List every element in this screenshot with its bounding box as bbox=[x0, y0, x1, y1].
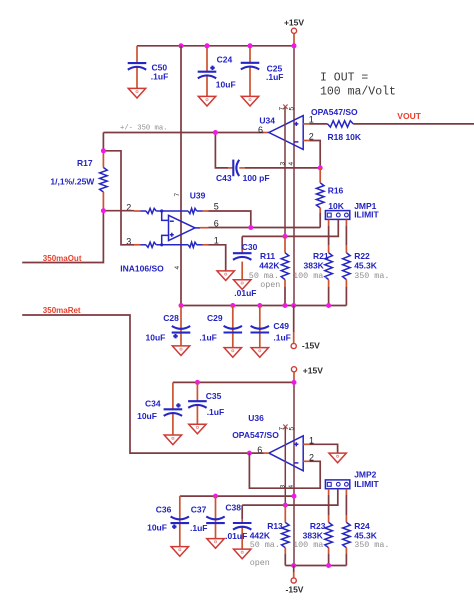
svg-text:5: 5 bbox=[289, 107, 296, 111]
svg-text:100 pF: 100 pF bbox=[243, 173, 270, 183]
svg-text:6: 6 bbox=[258, 125, 263, 135]
svg-text:R22: R22 bbox=[354, 251, 370, 261]
junction lower ILIM node bbox=[283, 503, 288, 508]
op-amp U36 OPA547/SO bbox=[232, 413, 303, 471]
svg-text:442K: 442K bbox=[259, 261, 280, 271]
svg-text:VOUT: VOUT bbox=[397, 111, 421, 121]
svg-text:10uF: 10uF bbox=[216, 80, 236, 90]
svg-text:C38: C38 bbox=[225, 503, 241, 513]
capacitor C50 bbox=[128, 46, 169, 98]
svg-text:1: 1 bbox=[214, 235, 219, 245]
svg-text:.1uF: .1uF bbox=[190, 523, 207, 533]
U36 pin 1 wire to ground bbox=[303, 435, 346, 462]
svg-text:442K: 442K bbox=[250, 530, 271, 540]
junctions lower +15V rail bbox=[195, 380, 297, 385]
svg-text:C29: C29 bbox=[207, 313, 223, 323]
resistor R13 bbox=[250, 505, 289, 568]
capacitor C24 bbox=[198, 46, 236, 106]
wire +15V vertical feed U36 bbox=[293, 382, 295, 565]
power +15V top bbox=[284, 18, 304, 46]
instrumentation amp U39 INA106/SO bbox=[120, 191, 205, 274]
svg-text:R24: R24 bbox=[354, 521, 370, 531]
svg-text:.1uF: .1uF bbox=[273, 332, 290, 342]
svg-text:OPA547/SO: OPA547/SO bbox=[311, 107, 358, 117]
wire 350maOut net bbox=[22, 211, 103, 263]
resistor R18 bbox=[328, 121, 362, 143]
U36 ILIM vertical wire (pin 3) bbox=[284, 427, 286, 505]
svg-text:R18 10K: R18 10K bbox=[328, 132, 362, 142]
svg-text:2: 2 bbox=[309, 453, 314, 463]
svg-text:C30: C30 bbox=[242, 242, 258, 252]
jumper JMP1 bbox=[325, 201, 379, 219]
svg-text:383K: 383K bbox=[304, 261, 325, 271]
svg-text:C37: C37 bbox=[191, 505, 207, 515]
U39 pin 6 output wire bbox=[195, 218, 320, 228]
svg-text:C34: C34 bbox=[145, 399, 161, 409]
wire C36/C37 bypass rail bbox=[180, 495, 294, 497]
wire U39 V+ vertical (pin 7 to pin 4 rail drop) bbox=[180, 46, 182, 306]
svg-text:100 ma.: 100 ma. bbox=[293, 540, 328, 550]
svg-text:I OUT =: I OUT = bbox=[320, 72, 368, 85]
svg-text:U36: U36 bbox=[248, 413, 264, 423]
wire VOUT net bbox=[353, 111, 474, 124]
U39 pin 3 input network bbox=[126, 235, 202, 247]
svg-text:.1uF: .1uF bbox=[266, 72, 283, 82]
junction ILIM node bbox=[283, 234, 288, 239]
svg-text:+15V: +15V bbox=[284, 18, 304, 28]
junctions bypass rail bbox=[213, 494, 297, 499]
junction R17 bottom bbox=[101, 208, 106, 213]
svg-text:-15V: -15V bbox=[302, 341, 320, 351]
wire R17 top branch to U39 pin 3 bbox=[103, 151, 134, 245]
svg-text:50 ma.: 50 ma. bbox=[250, 540, 280, 550]
svg-text:OPA547/SO: OPA547/SO bbox=[232, 430, 279, 440]
svg-text:5: 5 bbox=[214, 202, 219, 212]
wire 350maRet net bbox=[22, 306, 269, 453]
svg-text:R11: R11 bbox=[260, 251, 275, 261]
U34 rotated pin numbers 7 5 (top) bbox=[279, 107, 296, 111]
resistor R24 bbox=[343, 489, 390, 566]
svg-text:45.3K: 45.3K bbox=[354, 261, 378, 271]
U39 pin 1 wire to ground bbox=[203, 235, 235, 280]
U34 ILIM vertical wire (pin 3) bbox=[284, 107, 286, 237]
svg-text:1/,1%/.25W: 1/,1%/.25W bbox=[50, 176, 95, 186]
svg-text:10uF: 10uF bbox=[147, 523, 167, 533]
resistor R17 bbox=[50, 151, 107, 211]
svg-text:383K: 383K bbox=[303, 530, 324, 540]
svg-text:ILIMIT: ILIMIT bbox=[354, 209, 379, 219]
svg-text:350maOut: 350maOut bbox=[43, 254, 82, 263]
resistor R23 bbox=[293, 489, 332, 566]
wire +15V rail (lower) bbox=[173, 381, 294, 383]
svg-text:.01uF: .01uF bbox=[234, 288, 256, 298]
U39 pin 2 input network bbox=[126, 202, 202, 220]
capacitor C35 bbox=[188, 382, 224, 433]
capacitor C30 bbox=[233, 236, 258, 298]
svg-text:.1uF: .1uF bbox=[199, 332, 216, 342]
U36 rotated pin numbers 3 4 bbox=[280, 485, 296, 489]
svg-text:45.3K: 45.3K bbox=[354, 530, 378, 540]
wire R17 bottom to U39 pin 2 bbox=[103, 210, 134, 212]
svg-text:R13: R13 bbox=[267, 521, 283, 531]
svg-text:open: open bbox=[260, 280, 280, 290]
svg-text:5: 5 bbox=[289, 427, 296, 431]
junctions on -15V rail bbox=[179, 303, 332, 308]
capacitor C25 bbox=[241, 46, 284, 106]
power -15V (bottom) bbox=[286, 566, 304, 595]
svg-text:R21: R21 bbox=[313, 251, 329, 261]
svg-text:1: 1 bbox=[309, 114, 314, 124]
svg-text:C36: C36 bbox=[156, 505, 172, 515]
U36 feedback loop pin6 to pin2 bbox=[249, 453, 320, 489]
svg-text:4: 4 bbox=[174, 266, 181, 270]
svg-text:-15V: -15V bbox=[286, 585, 304, 595]
svg-text:ILIMIT: ILIMIT bbox=[354, 479, 379, 489]
resistor R16 bbox=[316, 168, 344, 228]
resistor R11 bbox=[249, 236, 289, 305]
U36 no-connect X on pin 7 bbox=[283, 425, 287, 429]
capacitor C38 and ILIM wire bbox=[225, 503, 251, 559]
capacitor C37 bbox=[190, 496, 225, 548]
svg-text:2: 2 bbox=[309, 131, 314, 141]
annotation I OUT = 100 ma/Volt bbox=[320, 72, 396, 99]
svg-text:U39: U39 bbox=[190, 191, 206, 201]
U34 pin 1 wire and label bbox=[303, 114, 327, 124]
svg-text:1: 1 bbox=[309, 435, 314, 445]
svg-text:.01uF: .01uF bbox=[225, 531, 247, 541]
svg-text:INA106/SO: INA106/SO bbox=[120, 264, 164, 274]
junction pin5/pin6 feedback node bbox=[248, 225, 253, 230]
resistor R22 bbox=[343, 220, 390, 306]
wire -15V rail (lower) bbox=[285, 565, 346, 567]
svg-text:R16: R16 bbox=[328, 186, 344, 196]
wire +15V vertical feed to U34 and -15V rail bbox=[293, 46, 295, 306]
wire ILIMIT horizontal net (lower) bbox=[242, 489, 338, 505]
capacitor C43 (feedback) bbox=[215, 133, 320, 184]
svg-text:100 ma.: 100 ma. bbox=[293, 271, 328, 281]
svg-text:C49: C49 bbox=[273, 321, 289, 331]
svg-text:C28: C28 bbox=[163, 313, 179, 323]
svg-text:10uF: 10uF bbox=[137, 411, 157, 421]
wire +/- 350 ma. net (U34 pin 6) bbox=[103, 125, 269, 151]
junction dots on +15V rail bbox=[179, 43, 297, 48]
U39 rotated pin numbers 7 4 bbox=[174, 193, 181, 270]
capacitor C49 bbox=[251, 306, 291, 358]
svg-text:R23: R23 bbox=[310, 521, 326, 531]
svg-text:+/- 350 ma.: +/- 350 ma. bbox=[120, 125, 167, 133]
junction R17 top bbox=[101, 148, 106, 153]
svg-text:C35: C35 bbox=[206, 391, 222, 401]
U34 pin 2 wire and label bbox=[303, 131, 320, 168]
U34 no-connect X on pin 7 bbox=[283, 105, 287, 109]
svg-text:10K: 10K bbox=[328, 201, 344, 211]
svg-text:3: 3 bbox=[279, 162, 286, 166]
svg-text:7: 7 bbox=[279, 427, 286, 431]
capacitor C29 bbox=[199, 306, 242, 358]
svg-text:R17: R17 bbox=[77, 158, 93, 168]
U36 pin 6 wire junction bbox=[247, 451, 252, 456]
svg-text:7: 7 bbox=[174, 193, 181, 197]
power +15V (lower section) bbox=[291, 365, 323, 382]
svg-text:350maRet: 350maRet bbox=[43, 306, 81, 315]
resistor R21 bbox=[293, 220, 332, 306]
capacitor C34 bbox=[137, 382, 182, 444]
wire top +15V rail bbox=[137, 45, 294, 47]
svg-text:C24: C24 bbox=[217, 54, 233, 64]
junction C43/pin6 node bbox=[213, 130, 218, 135]
junctions lower -15V rail bbox=[291, 563, 331, 568]
svg-text:4: 4 bbox=[288, 162, 295, 166]
svg-text:open: open bbox=[250, 558, 270, 568]
svg-text:+15V: +15V bbox=[303, 365, 323, 375]
power -15V (top section) bbox=[291, 306, 320, 351]
jumper JMP2 bbox=[325, 470, 379, 489]
capacitor C28 bbox=[146, 306, 191, 356]
wire -15V rail (top section) bbox=[181, 305, 346, 307]
svg-text:C43: C43 bbox=[216, 173, 232, 183]
svg-text:10uF: 10uF bbox=[146, 332, 166, 342]
U34 rotated pin numbers 3 4 (bottom) bbox=[279, 162, 295, 166]
svg-text:350 ma.: 350 ma. bbox=[354, 271, 389, 281]
svg-text:.1uF: .1uF bbox=[207, 407, 224, 417]
junction R16/C43/pin2 node bbox=[318, 165, 323, 170]
svg-text:.1uF: .1uF bbox=[151, 72, 168, 82]
capacitor C36 bbox=[147, 496, 189, 556]
wire ILIMIT horizontal net bbox=[242, 220, 338, 237]
svg-text:100 ma/Volt: 100 ma/Volt bbox=[320, 85, 396, 98]
op-amp U34 OPA547/SO bbox=[258, 107, 358, 150]
svg-text:350 ma.: 350 ma. bbox=[354, 540, 389, 550]
U36 rotated pin numbers 7 5 bbox=[279, 427, 296, 431]
U39 pin 5 wire bbox=[203, 202, 251, 228]
